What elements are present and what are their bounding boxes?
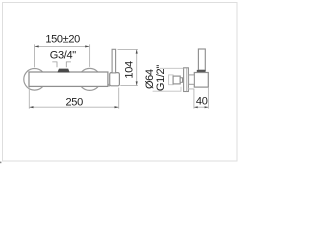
arrow right bbox=[85, 45, 89, 47]
arrow left 40 bbox=[194, 106, 198, 108]
mixer body bar bbox=[29, 72, 108, 86]
leader right bbox=[66, 62, 71, 67]
registration mark bottom-left bbox=[0, 162, 1, 164]
svg-text:250: 250 bbox=[66, 96, 84, 108]
arrow right bbox=[115, 106, 119, 108]
svg-text:104: 104 bbox=[124, 61, 136, 79]
arrow down bbox=[136, 81, 138, 85]
union nipple bbox=[173, 76, 180, 84]
arrow left bbox=[35, 45, 39, 47]
arrow up bbox=[136, 50, 138, 54]
wall connector between flange and body bbox=[189, 75, 195, 84]
arrow left bbox=[29, 106, 33, 108]
step line under body bbox=[188, 88, 194, 89]
ext line right bbox=[207, 88, 209, 109]
leader left bbox=[52, 62, 57, 67]
flange inner edge bbox=[186, 68, 188, 91]
ext line top (handle top) bbox=[118, 48, 138, 50]
dim line 104 bbox=[136, 49, 138, 85]
leader G1/2 to nipple bbox=[153, 87, 181, 91]
svg-text:150±20: 150±20 bbox=[45, 34, 80, 46]
leader O64 to flange bbox=[160, 67, 184, 69]
dim line 250 bbox=[29, 106, 118, 108]
right wall flange / dome circle bbox=[79, 68, 101, 90]
svg-text:40: 40 bbox=[196, 96, 208, 108]
ext line left bbox=[28, 87, 30, 109]
svg-text:G3/4": G3/4" bbox=[50, 49, 76, 61]
ext line left bbox=[193, 89, 195, 109]
ext line right (to dome centre) bbox=[89, 44, 91, 67]
cartridge body (side) bbox=[194, 73, 208, 88]
lever collar (dark) bbox=[197, 70, 206, 72]
nipple nub bbox=[180, 78, 182, 83]
ext line bottom (cap bottom) bbox=[120, 85, 138, 87]
svg-text:G1/2": G1/2" bbox=[155, 65, 167, 91]
ext line right bbox=[118, 88, 120, 109]
G3/4 outlet port (dark trapezoid) bbox=[57, 69, 69, 73]
drawing frame border bbox=[3, 3, 238, 162]
left wall flange circle bbox=[24, 69, 46, 91]
dim line 150 bbox=[35, 45, 90, 47]
lever (side) bbox=[198, 49, 205, 70]
ext line left (to left flange centre) bbox=[34, 44, 36, 67]
G1/2 threaded pipe end bbox=[169, 75, 174, 85]
wall escutcheon flange (side strip) bbox=[184, 68, 189, 92]
handle end cap bbox=[110, 73, 120, 86]
arrow right 40 bbox=[205, 106, 209, 108]
dim line 40 bbox=[194, 106, 209, 108]
handle lever (front) bbox=[112, 49, 116, 73]
body end notch bbox=[108, 83, 111, 86]
